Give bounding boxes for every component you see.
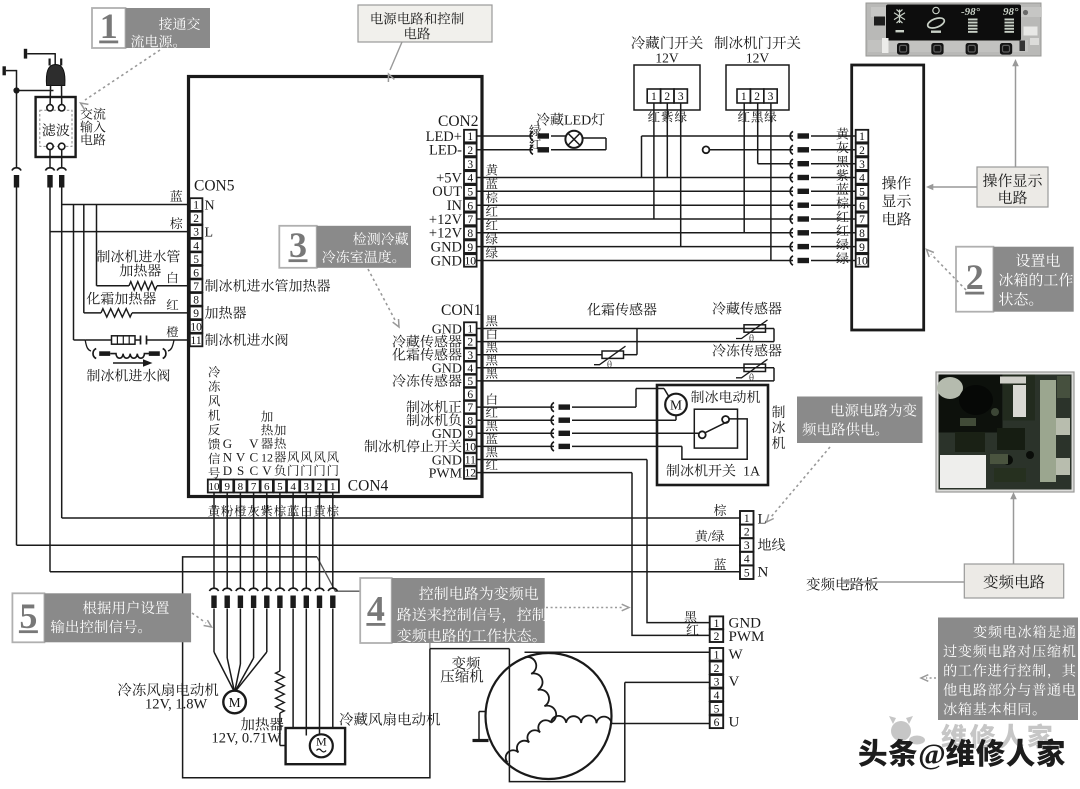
snowflake icon — [894, 10, 905, 24]
svg-text:5: 5 — [193, 254, 199, 266]
wire CON4 pin1 down — [332, 493, 334, 589]
wire 蓝 to inverter N pin — [50, 571, 740, 573]
valve coil — [110, 354, 149, 359]
callout 4 — [360, 578, 392, 643]
svg-text:3: 3 — [304, 481, 310, 493]
wire 棕 to inverter L pin — [62, 517, 740, 519]
valve connector arc left — [93, 349, 96, 359]
wire pin5 row — [477, 380, 774, 382]
wire CON2 pin4 to display — [477, 177, 793, 179]
connector display row 1 — [790, 131, 793, 140]
svg-text:1: 1 — [330, 481, 336, 493]
2-pin GND/PWM connector — [710, 616, 724, 629]
wire GND to inverter connector — [647, 460, 710, 623]
svg-text:8: 8 — [238, 481, 244, 493]
svg-text:V: V — [729, 674, 740, 690]
svg-text:GND: GND — [432, 362, 462, 377]
svg-text:U: U — [729, 715, 740, 731]
arrow to display box — [931, 186, 977, 188]
filter terminal top-left — [47, 105, 53, 111]
label 风门 (pin3) — [301, 451, 313, 462]
wire CON4 pin4 down — [292, 493, 294, 589]
label 加热器 — [241, 717, 254, 730]
wire to water valve — [74, 339, 86, 341]
connector CON4 pin6 — [262, 588, 271, 591]
resistor 加热器 12V 0.71W — [279, 609, 281, 672]
svg-text:L: L — [758, 512, 767, 528]
wire enclosure link — [430, 648, 510, 650]
dotted leader callout2 — [931, 254, 966, 290]
wire LED+ row — [477, 135, 533, 137]
switch 制冰机门开关 12V — [726, 65, 789, 110]
connector display row 10 — [790, 256, 793, 265]
svg-text:GND: GND — [431, 253, 462, 269]
box + motor 冷藏风扇电动机 — [286, 728, 346, 764]
wire display pin3 row — [758, 163, 793, 165]
box 操作显示电路 — [852, 65, 924, 330]
motor 制冰电动机 — [665, 394, 687, 416]
svg-text:CON5: CON5 — [194, 178, 235, 195]
wire GND pin9 row — [477, 246, 793, 248]
wire switch1 紫 to row4 — [666, 103, 668, 178]
svg-text:2: 2 — [467, 145, 473, 157]
connector CON4 pin4 — [289, 588, 298, 591]
wire down to plug — [54, 53, 56, 64]
wire U — [612, 723, 710, 725]
icemaker switch 1A — [694, 409, 737, 448]
wire to defrost heater — [84, 312, 101, 314]
svg-text:7: 7 — [467, 402, 473, 414]
wire display pin1 row — [642, 135, 794, 137]
label 化霜传感器 — [587, 303, 600, 316]
svg-text:3: 3 — [859, 159, 865, 171]
label 滤波 — [42, 123, 55, 136]
svg-text:N: N — [758, 565, 769, 581]
svg-text:7: 7 — [193, 281, 199, 293]
svg-text:1: 1 — [193, 200, 199, 212]
label 制冰机进水管 — [97, 250, 110, 263]
svg-text:C: C — [250, 463, 259, 478]
svg-text:PWM: PWM — [729, 629, 765, 645]
wire GND4 row — [477, 367, 774, 369]
connector display row 5 — [790, 187, 793, 196]
display wire colour labels 黄灰黑紫蓝棕红红绿绿 — [836, 128, 848, 140]
CON2 wire colour labels — [529, 125, 541, 136]
connector display row 7 — [790, 214, 793, 223]
earth rail down — [16, 188, 18, 546]
leader to main box — [390, 42, 402, 70]
connector display row 4 — [790, 173, 793, 182]
svg-text:4: 4 — [714, 690, 720, 702]
leader to callout 4 — [317, 557, 360, 591]
svg-text:6: 6 — [193, 267, 199, 279]
valve branch lead left — [85, 340, 91, 351]
svg-text:@: @ — [918, 739, 945, 771]
wire valve to pin11 — [174, 339, 191, 341]
wire motor+ up — [635, 389, 637, 408]
main board box — [189, 77, 483, 497]
dish icon — [926, 16, 945, 30]
wire lamp to return — [583, 137, 606, 139]
svg-text:3: 3 — [678, 91, 684, 103]
wire node to display pin2 — [709, 149, 793, 151]
earth rail upper — [16, 91, 18, 168]
wire down to junction — [16, 70, 18, 91]
svg-text:4: 4 — [744, 554, 750, 566]
wire N row to CON5 pin1 — [62, 204, 191, 206]
AC outlet terminal bar 2 — [3, 66, 6, 75]
wire compressor V loop — [509, 649, 624, 782]
info box 变频电冰箱说明 — [938, 618, 1078, 721]
svg-text:4: 4 — [290, 481, 296, 493]
label 化霜加热器 — [87, 292, 100, 305]
connector CON4 pin9 — [223, 588, 232, 591]
wire CON4 pin10 down — [213, 493, 215, 589]
wire pin2 row — [477, 341, 774, 343]
svg-text:6: 6 — [264, 481, 270, 493]
label 制冰机开关 1A — [666, 464, 679, 477]
svg-text:9: 9 — [859, 242, 865, 254]
label 冷冻风机反馈信号 — [208, 366, 220, 378]
svg-text:/: / — [708, 529, 712, 544]
svg-text:9: 9 — [224, 481, 230, 493]
wire CON2 pin5 to display — [477, 190, 793, 192]
svg-text:7: 7 — [467, 214, 473, 226]
wire defrost heater to pin9 — [132, 312, 191, 314]
filter out right — [61, 150, 63, 168]
svg-text:1: 1 — [651, 91, 657, 103]
svg-text:1: 1 — [467, 324, 473, 336]
watermark 头条@维修人家 — [859, 739, 887, 767]
wires converge to freezer fan motor — [213, 609, 215, 653]
svg-text:5: 5 — [277, 481, 283, 493]
svg-text:5: 5 — [714, 703, 720, 715]
svg-text:1: 1 — [714, 649, 720, 661]
leader callout4 stub — [429, 643, 431, 649]
svg-text:12V, 0.71W: 12V, 0.71W — [212, 731, 282, 747]
callout 2 — [956, 247, 993, 312]
thermistor 冷藏传感器 — [744, 325, 766, 332]
svg-text:CON2: CON2 — [438, 113, 478, 130]
wire CON4 pin9 down — [226, 493, 228, 589]
label 变频电路板 — [806, 577, 819, 590]
svg-text:W: W — [729, 647, 744, 663]
capacitor plate 2 — [146, 336, 148, 345]
wire CON1 pin10 — [477, 445, 554, 447]
wire GND11 — [477, 459, 647, 461]
wire junction to plug-left lead — [17, 90, 54, 92]
wire CON4 pin2 down — [319, 493, 321, 589]
callout 1 — [92, 8, 126, 48]
wire CON4 pin8 down — [239, 493, 241, 589]
CON5 left color labels — [170, 190, 182, 202]
connector CON1 pin9 — [551, 429, 554, 438]
connector CON4 pin7 — [249, 588, 258, 591]
connector CON4 pin1 — [328, 588, 337, 591]
wire CON4 pin5 down — [279, 493, 281, 589]
switch 冷藏门开关 12V — [634, 65, 700, 110]
connector CON1 pin8 — [551, 416, 554, 425]
plug lead right — [61, 85, 63, 105]
svg-text:10: 10 — [209, 481, 221, 493]
svg-text:1: 1 — [741, 91, 747, 103]
svg-text:V: V — [262, 463, 272, 478]
svg-text:12V: 12V — [655, 51, 679, 66]
switch terminal right — [722, 416, 729, 423]
svg-text:6: 6 — [467, 200, 473, 212]
wire stop-switch loop — [682, 419, 747, 459]
wire into motor — [664, 389, 669, 397]
svg-text:CON4: CON4 — [348, 478, 389, 495]
filter out left — [49, 150, 51, 168]
svg-text:11: 11 — [191, 335, 202, 347]
svg-text:D: D — [223, 463, 232, 478]
svg-text:1: 1 — [744, 513, 750, 525]
label 加热器 line2 — [120, 264, 133, 277]
label 冷藏风扇电动机 — [340, 712, 354, 725]
svg-text:4: 4 — [859, 173, 865, 185]
dotted leader callout4 — [546, 607, 622, 609]
svg-text:2: 2 — [714, 631, 720, 643]
wire pin3 row — [477, 354, 602, 356]
wire CON1 pin9 — [477, 432, 554, 434]
svg-text:2: 2 — [966, 257, 984, 297]
svg-text:2: 2 — [664, 91, 670, 103]
connector on LED+ wire — [530, 131, 533, 140]
svg-text:2: 2 — [467, 337, 473, 349]
CON1 wire colour labels — [486, 315, 497, 326]
compressor ground symbol — [479, 711, 486, 713]
wire CON4 pin7 down — [253, 493, 255, 589]
valve branch lead right — [168, 340, 174, 351]
wire 黄/绿 earth to inverter pin3 — [17, 544, 741, 546]
wire PWM — [477, 472, 632, 474]
capacitor plate 1 — [140, 336, 142, 345]
connector display row 6 — [790, 201, 793, 210]
callout 电源电路为变频电路供电 — [797, 397, 923, 444]
svg-text:8: 8 — [859, 228, 865, 240]
switch terminal left — [699, 431, 706, 438]
svg-text:PWM: PWM — [429, 467, 463, 482]
connector display row 3 — [790, 159, 793, 168]
wire switch1 红 to +12V row7 — [653, 103, 655, 219]
filter terminal bottom-right — [59, 143, 65, 149]
arrow to pcb photo — [1013, 497, 1015, 564]
svg-text:9: 9 — [467, 428, 473, 440]
connector CON4 pin10 — [209, 588, 218, 591]
wire from terminal 2 — [6, 70, 17, 72]
svg-text:10: 10 — [465, 256, 477, 268]
label 冷冻风扇电动机 — [118, 683, 132, 696]
svg-text:6: 6 — [714, 717, 720, 729]
wire switch2 红 to +12V row8 — [743, 103, 745, 233]
label 制冰机进水阀 — [87, 369, 100, 382]
svg-text:8: 8 — [467, 228, 473, 240]
connector CON4 pin8 — [236, 588, 245, 591]
svg-text:5: 5 — [19, 596, 37, 636]
wires to fridge fan motor — [292, 609, 294, 729]
wire L row to CON5 pin3 — [50, 231, 191, 233]
dotted leader info box — [926, 677, 936, 679]
svg-text:M: M — [229, 695, 241, 710]
label pin9 — [205, 306, 218, 319]
connector display row 9 — [790, 242, 793, 251]
svg-text:4: 4 — [467, 173, 473, 185]
svg-text:9: 9 — [467, 242, 473, 254]
5-pin AC connector — [740, 511, 754, 525]
svg-text:12V, 1.8W: 12V, 1.8W — [145, 697, 207, 713]
svg-text:2: 2 — [859, 145, 865, 157]
dotted leader power callout — [771, 447, 830, 517]
svg-text:5: 5 — [859, 187, 865, 199]
label 加热器负 (pin5) — [274, 424, 286, 435]
fan section outline box — [183, 557, 430, 778]
junction dot — [13, 87, 19, 93]
svg-text:4: 4 — [367, 589, 385, 629]
connector on LED- wire — [530, 145, 533, 154]
svg-text:10: 10 — [190, 322, 202, 334]
compressor windings — [525, 657, 557, 723]
AC plug body — [46, 65, 65, 86]
wire LED return vertical — [605, 138, 607, 150]
dotted leader callout5 — [192, 613, 206, 623]
svg-text:-98°: -98° — [961, 6, 981, 18]
wire +12V pin7 row — [477, 218, 793, 220]
wire +12V pin8 row — [477, 232, 793, 234]
svg-text:5: 5 — [467, 376, 473, 388]
svg-text:5: 5 — [744, 567, 750, 579]
svg-text:10: 10 — [465, 442, 477, 454]
wire return valve to N row — [73, 205, 75, 341]
wire switch1 绿 to GND row9 — [680, 103, 682, 247]
svg-text:2: 2 — [754, 91, 760, 103]
svg-text:12V: 12V — [746, 51, 770, 66]
label pin11 — [205, 333, 218, 346]
icemaker box 制冰机 — [657, 385, 768, 485]
arrow left from 变频电路 — [847, 581, 964, 583]
svg-text:3: 3 — [467, 350, 473, 362]
plug lead left — [49, 85, 52, 105]
svg-text:GND: GND — [432, 322, 462, 337]
connector CON4 pin5 — [275, 588, 284, 591]
sun icon — [933, 7, 939, 13]
wire PWM to inverter connector — [632, 473, 710, 636]
svg-text:L: L — [205, 226, 214, 241]
svg-text:3: 3 — [467, 159, 473, 171]
wire CON1 pin7 — [477, 406, 554, 408]
svg-text:12: 12 — [465, 468, 477, 480]
connector CON1 pin7 — [551, 403, 554, 412]
wire CON4 pin6 down — [266, 493, 268, 589]
label 制冰机 vertical — [772, 405, 785, 418]
wire heater R to pin7 — [157, 285, 191, 287]
label box 操作显示电路 — [977, 167, 1048, 207]
svg-text:5: 5 — [467, 187, 473, 199]
label 冷藏LED灯 — [537, 113, 550, 126]
filter box 滤波 (AC input filter) — [36, 97, 76, 157]
svg-text:M: M — [316, 735, 327, 749]
svg-text:4: 4 — [193, 240, 199, 252]
N lead down — [61, 188, 63, 519]
svg-text:11: 11 — [465, 455, 476, 467]
svg-text:3: 3 — [744, 540, 750, 552]
watermark cat logo — [889, 716, 925, 745]
svg-text:3: 3 — [714, 676, 720, 688]
wire sensor return — [773, 329, 775, 342]
label 风门 (pin4) — [287, 451, 299, 462]
switch blade — [705, 421, 729, 433]
svg-text:3: 3 — [768, 91, 774, 103]
svg-text:3: 3 — [289, 225, 307, 265]
label 加热器12V (pin6) — [261, 411, 273, 422]
svg-text:7: 7 — [251, 481, 257, 493]
wire from terminal 1 — [27, 53, 55, 55]
L lead down — [49, 188, 51, 572]
svg-text:LED: LED — [564, 114, 591, 129]
dotted leader callout1 — [85, 50, 160, 100]
svg-text:10: 10 — [856, 256, 868, 268]
dotted leader callout3 — [368, 269, 395, 320]
svg-text:4: 4 — [467, 363, 473, 375]
panel buttons — [897, 43, 909, 55]
lamp 冷藏LED灯 — [565, 131, 582, 148]
connector on N lead — [57, 168, 66, 171]
connector CON4 pin3 — [302, 588, 311, 591]
compressor circle 变频压缩机 — [486, 653, 612, 779]
valve connector pin left — [99, 351, 110, 356]
label 冷藏传感器 — [713, 302, 726, 315]
label 制冰电动机 — [691, 390, 704, 403]
svg-text:CON1: CON1 — [441, 302, 481, 319]
plug prong right — [60, 59, 62, 66]
svg-text:S: S — [237, 463, 244, 478]
wire return defrost heater to N row — [83, 205, 85, 313]
filter terminal top-right — [59, 105, 65, 111]
callout 5 — [12, 593, 44, 642]
wire motor- up — [675, 416, 677, 421]
valve connector pin right — [149, 351, 160, 356]
motor 冷冻风扇电动机 M — [223, 691, 246, 714]
6-pin W/V/U connector — [710, 648, 724, 661]
wire GND to switch — [572, 432, 699, 434]
svg-text:6: 6 — [859, 200, 865, 212]
wire tee +5V up to display pin1 row — [641, 136, 643, 178]
connector CON4 pin2 — [315, 588, 324, 591]
svg-text:7: 7 — [859, 214, 865, 226]
wire to heater R — [97, 285, 130, 287]
connector on L lead — [45, 168, 54, 171]
wire sensor return 2 — [773, 368, 775, 381]
svg-text:9: 9 — [193, 308, 199, 320]
svg-text:1: 1 — [100, 6, 118, 46]
wire CON4 pin3 down — [305, 493, 307, 589]
svg-text:6: 6 — [467, 389, 473, 401]
AC outlet terminal bar 1 — [24, 49, 27, 59]
svg-text:1: 1 — [859, 131, 865, 143]
wire LED- row — [551, 149, 606, 151]
wire CON1 pin8 — [477, 419, 554, 421]
label box 变频电路 — [964, 564, 1063, 598]
svg-text:1: 1 — [467, 131, 473, 143]
valve arrow — [113, 362, 147, 364]
svg-text:N: N — [205, 198, 215, 213]
arrow to display photo — [1015, 64, 1017, 167]
label pin7 — [205, 279, 218, 292]
svg-text:3: 3 — [193, 227, 199, 239]
wire GND1 row — [477, 328, 774, 330]
CON4 wire colour labels 黄粉橙灰紫棕蓝白黄棕 — [208, 505, 220, 516]
wire V — [625, 681, 710, 683]
